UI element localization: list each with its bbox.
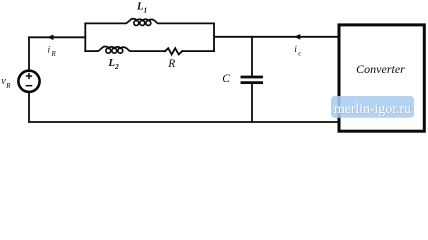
svg-text:2: 2 (114, 62, 119, 71)
svg-text:c: c (298, 51, 301, 58)
svg-text:L: L (136, 1, 143, 12)
svg-text:1: 1 (144, 6, 148, 15)
svg-text:i: i (294, 45, 297, 55)
svg-text:merlin-igor.ru: merlin-igor.ru (334, 101, 411, 116)
svg-text:i: i (48, 45, 51, 55)
svg-text:R: R (167, 58, 175, 70)
svg-text:Converter: Converter (356, 62, 405, 76)
svg-text:C: C (222, 73, 230, 85)
svg-text:L: L (108, 58, 115, 69)
svg-text:R: R (51, 51, 57, 58)
svg-text:R: R (5, 83, 11, 90)
